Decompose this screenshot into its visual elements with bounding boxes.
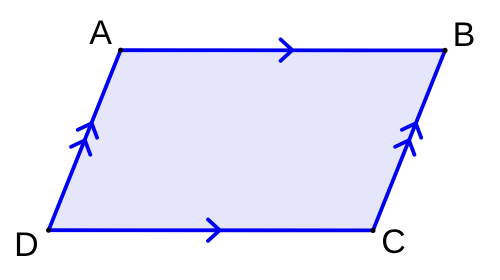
vertex dot C — [370, 228, 375, 233]
side DC — [49, 228, 373, 232]
double arrow mark 2 on BC — [402, 123, 421, 138]
svg-text:D: D — [14, 226, 39, 264]
side AB — [121, 48, 445, 52]
side AD — [49, 50, 121, 230]
arrow mark on DC — [208, 220, 220, 241]
double arrow mark 1 on BC — [395, 140, 414, 155]
double arrow mark 2 on AD — [78, 123, 97, 138]
side BC — [373, 50, 445, 230]
vertex dot B — [442, 48, 447, 53]
vertex dot A — [118, 48, 123, 53]
svg-text:A: A — [89, 14, 112, 52]
parallelogram ABCD fill — [49, 50, 445, 230]
double arrow mark 1 on AD — [71, 140, 90, 155]
vertex dot D — [46, 228, 51, 233]
svg-text:C: C — [381, 223, 406, 261]
svg-text:B: B — [453, 16, 476, 54]
arrow mark on AB — [281, 39, 293, 60]
